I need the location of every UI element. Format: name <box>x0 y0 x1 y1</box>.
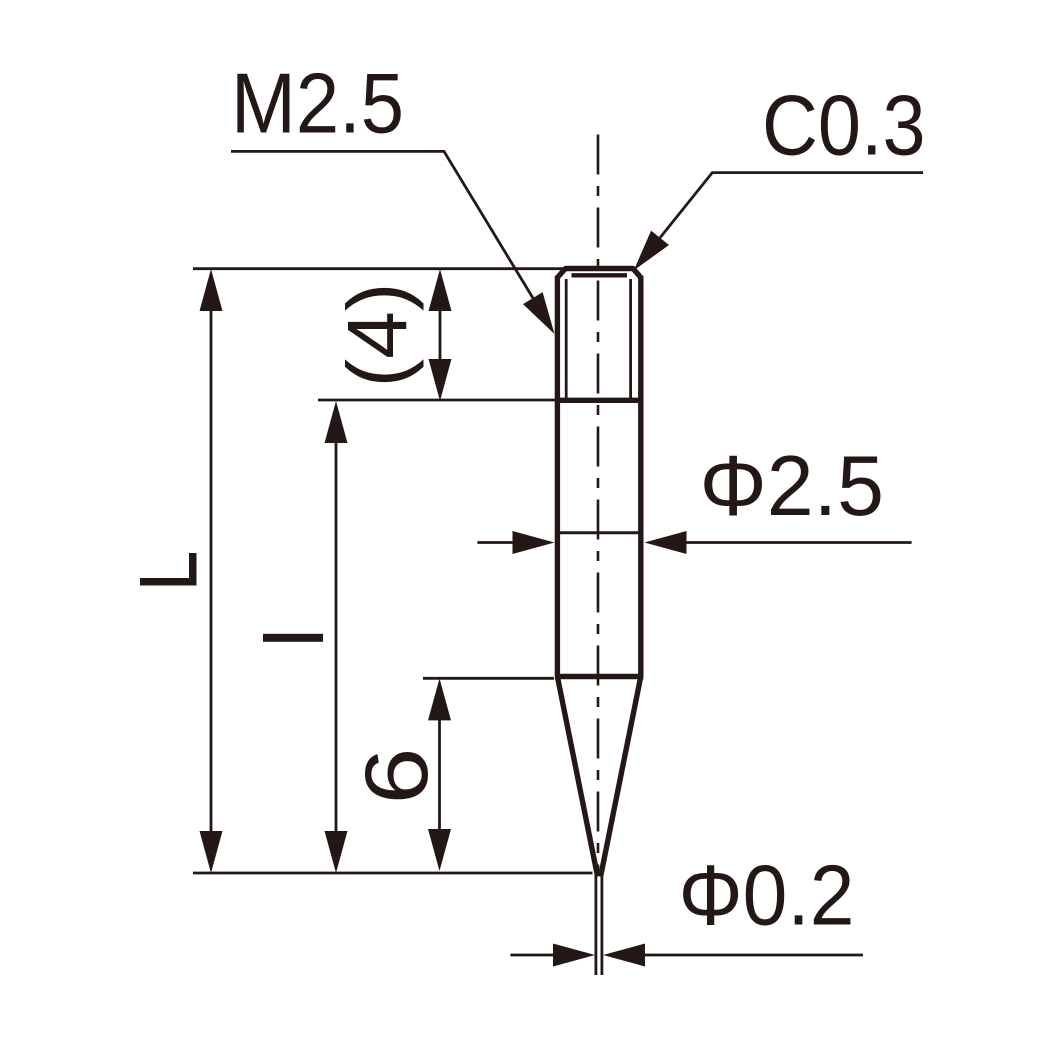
arrowhead 6 top <box>428 678 451 720</box>
arrowhead (4) top <box>429 269 452 311</box>
leader C0.3 <box>660 173 923 238</box>
label l <box>263 634 323 642</box>
dia 0.2 dimension line left <box>510 954 565 957</box>
arrowhead leader C0.3 <box>634 231 669 271</box>
cone start line <box>555 674 643 679</box>
arrowhead 6 bottom <box>428 829 451 871</box>
leader M2.5 <box>231 151 533 298</box>
dimension line L <box>210 290 213 852</box>
dia 0.2 dimension line right <box>633 954 863 957</box>
thread root line right <box>629 279 632 398</box>
svg-text:6: 6 <box>346 748 446 805</box>
dimension line (4) <box>439 290 442 380</box>
stylus body outline (thread OD + shank sides with top chamfer) <box>557 269 640 677</box>
svg-text:(4): (4) <box>330 283 424 388</box>
tip cylinder left edge <box>595 874 598 975</box>
arrowhead (4) bottom <box>429 359 452 401</box>
arrowhead dia0.2 left <box>553 944 595 967</box>
arrowhead L top <box>200 269 223 311</box>
svg-text:Φ2.5: Φ2.5 <box>700 439 885 534</box>
arrowhead dia2.5 right <box>645 531 687 554</box>
dimension line l <box>335 422 338 852</box>
cone right edge <box>601 677 641 877</box>
dia 2.5 dimension line left <box>477 541 525 544</box>
thread bottom line <box>555 398 643 403</box>
svg-text:Φ0.2: Φ0.2 <box>679 848 855 943</box>
arrowhead L bottom <box>200 831 223 873</box>
arrowhead dia2.5 left <box>513 531 555 554</box>
arrowhead l bottom <box>325 831 348 873</box>
tip cylinder right edge <box>601 874 604 975</box>
cone left edge <box>557 677 597 877</box>
centerline <box>597 135 600 877</box>
dimension line 6 <box>438 699 441 850</box>
arrowhead leader M2.5 <box>523 292 555 334</box>
svg-text:M2.5: M2.5 <box>231 57 404 152</box>
svg-text:C0.3: C0.3 <box>762 78 926 173</box>
dia 2.5 dimension line right <box>673 541 912 544</box>
thread root line left <box>565 279 568 398</box>
thread chamfer line <box>572 273 628 277</box>
top reference line <box>193 267 566 270</box>
arrowhead dia0.2 right <box>603 944 645 967</box>
cone-length reference line <box>423 677 554 680</box>
shank joint line <box>557 531 640 534</box>
bottom reference line <box>193 872 593 875</box>
label L <box>140 578 197 586</box>
arrowhead l top <box>325 401 348 443</box>
thread-length reference line <box>318 399 560 402</box>
